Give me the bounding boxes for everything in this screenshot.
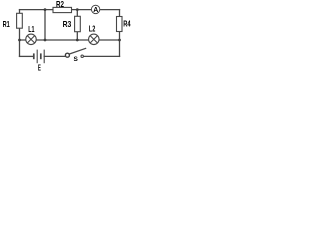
wire top rail [20,9,120,11]
svg-text:L2: L2 [89,24,96,34]
switch S [65,48,86,57]
svg-text:R3: R3 [63,19,72,29]
svg-text:R2: R2 [56,0,64,9]
resistor R1 [17,13,23,28]
wire R3 column [76,10,78,40]
wire branch x=45 top to middle [44,10,46,40]
ammeter U A [91,5,99,13]
node junction R3 / lamp row [76,39,79,42]
battery E [34,50,44,64]
node junction left rail / lamp row [18,39,21,42]
lamp L2 [89,34,100,45]
wire bottom rail left segment [20,55,34,57]
svg-text:S: S [74,56,79,63]
resistor R3 [75,16,81,31]
lamp L1 [26,34,37,45]
wire middle lamp row [20,39,120,41]
node junction top-right of R2 [76,8,79,11]
wire bottom rail battery-to-switch segment [44,55,65,57]
node junction top-left of R2 [44,8,47,11]
node junction right rail / lamp row [118,39,121,42]
wire left column [19,10,21,57]
svg-text:A: A [93,7,98,14]
svg-text:E: E [38,63,41,73]
wire bottom rail switch-to-right segment [82,55,120,57]
resistor R4 [117,17,123,32]
node junction mid branch / lamp row [44,39,47,42]
svg-text:R4: R4 [123,19,131,29]
resistor R2 [53,7,72,12]
svg-text:L1: L1 [28,24,34,34]
svg-text:R1: R1 [3,19,10,29]
wire right column [119,10,121,57]
